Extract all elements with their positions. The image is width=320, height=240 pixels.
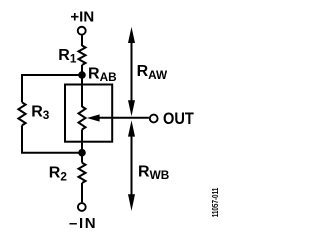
terminal +IN (78, 27, 86, 35)
arrow RWB (128, 120, 135, 210)
wire (81, 183, 83, 202)
wire (81, 130, 83, 163)
wire (81, 65, 83, 86)
resistor R2 (79, 163, 86, 183)
potentiometer box RAB (65, 85, 112, 142)
svg-text:11057-011: 11057-011 (210, 188, 220, 218)
svg-text:–IN: –IN (69, 215, 97, 232)
wire (22, 75, 82, 102)
wiper arrow wire (99, 117, 149, 119)
svg-text:R1: R1 (58, 47, 77, 66)
wire (81, 35, 83, 46)
svg-text:R2: R2 (49, 165, 68, 184)
terminal -IN (78, 203, 86, 211)
resistor R3 (18, 102, 25, 125)
node B (78, 149, 86, 157)
wiper arrowhead (87, 114, 100, 121)
svg-text:OUT: OUT (163, 110, 194, 128)
OUT terminal (150, 115, 158, 123)
potentiometer element (79, 107, 86, 130)
wire (22, 125, 82, 152)
resistor R1 (79, 46, 86, 66)
svg-text:RAB: RAB (88, 65, 117, 84)
svg-text:+IN: +IN (70, 8, 94, 25)
wire (81, 85, 83, 108)
svg-text:RWB: RWB (138, 163, 169, 182)
node RAB (78, 71, 86, 79)
arrow RAW (128, 27, 135, 116)
svg-text:R3: R3 (31, 103, 50, 122)
svg-text:RAW: RAW (137, 63, 168, 82)
